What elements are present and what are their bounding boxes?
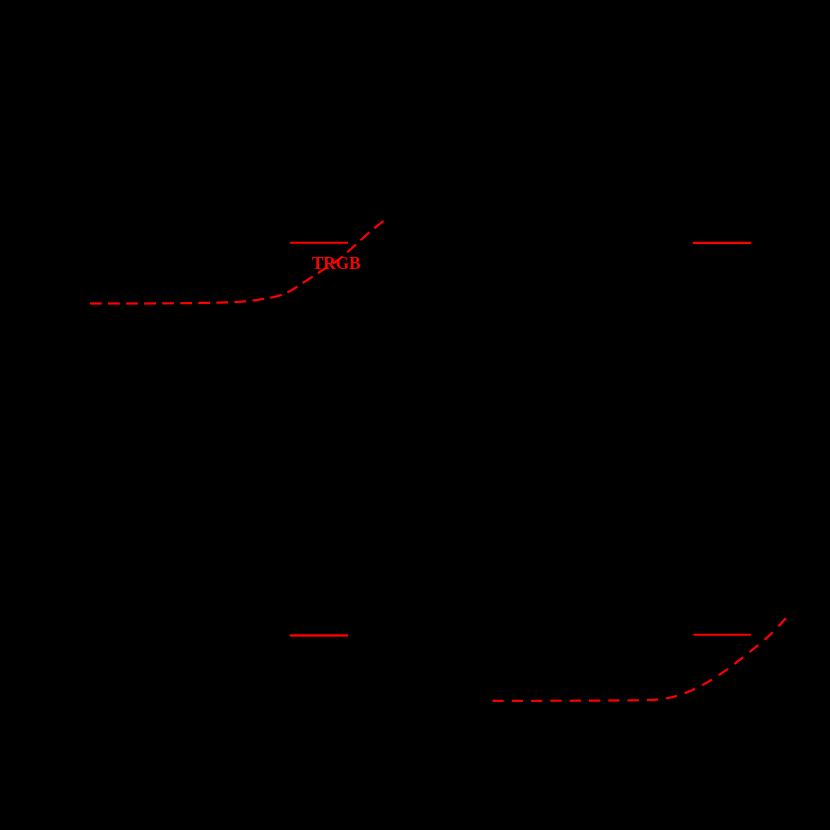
svg-text:TRGB: TRGB [312, 253, 361, 273]
TRGB level solid line panel 4 (bottom-right) [693, 634, 751, 636]
TRGB level solid line panel 1 (top-left) [290, 242, 348, 244]
TRGB level solid line panel 3 (bottom-left) [290, 634, 348, 636]
dashed RGB track curve panel 4 (bottom-right) [493, 618, 787, 701]
dashed RGB track curve panel 1 (top-left) [90, 221, 384, 304]
TRGB level solid line panel 2 (top-right) [693, 242, 751, 244]
